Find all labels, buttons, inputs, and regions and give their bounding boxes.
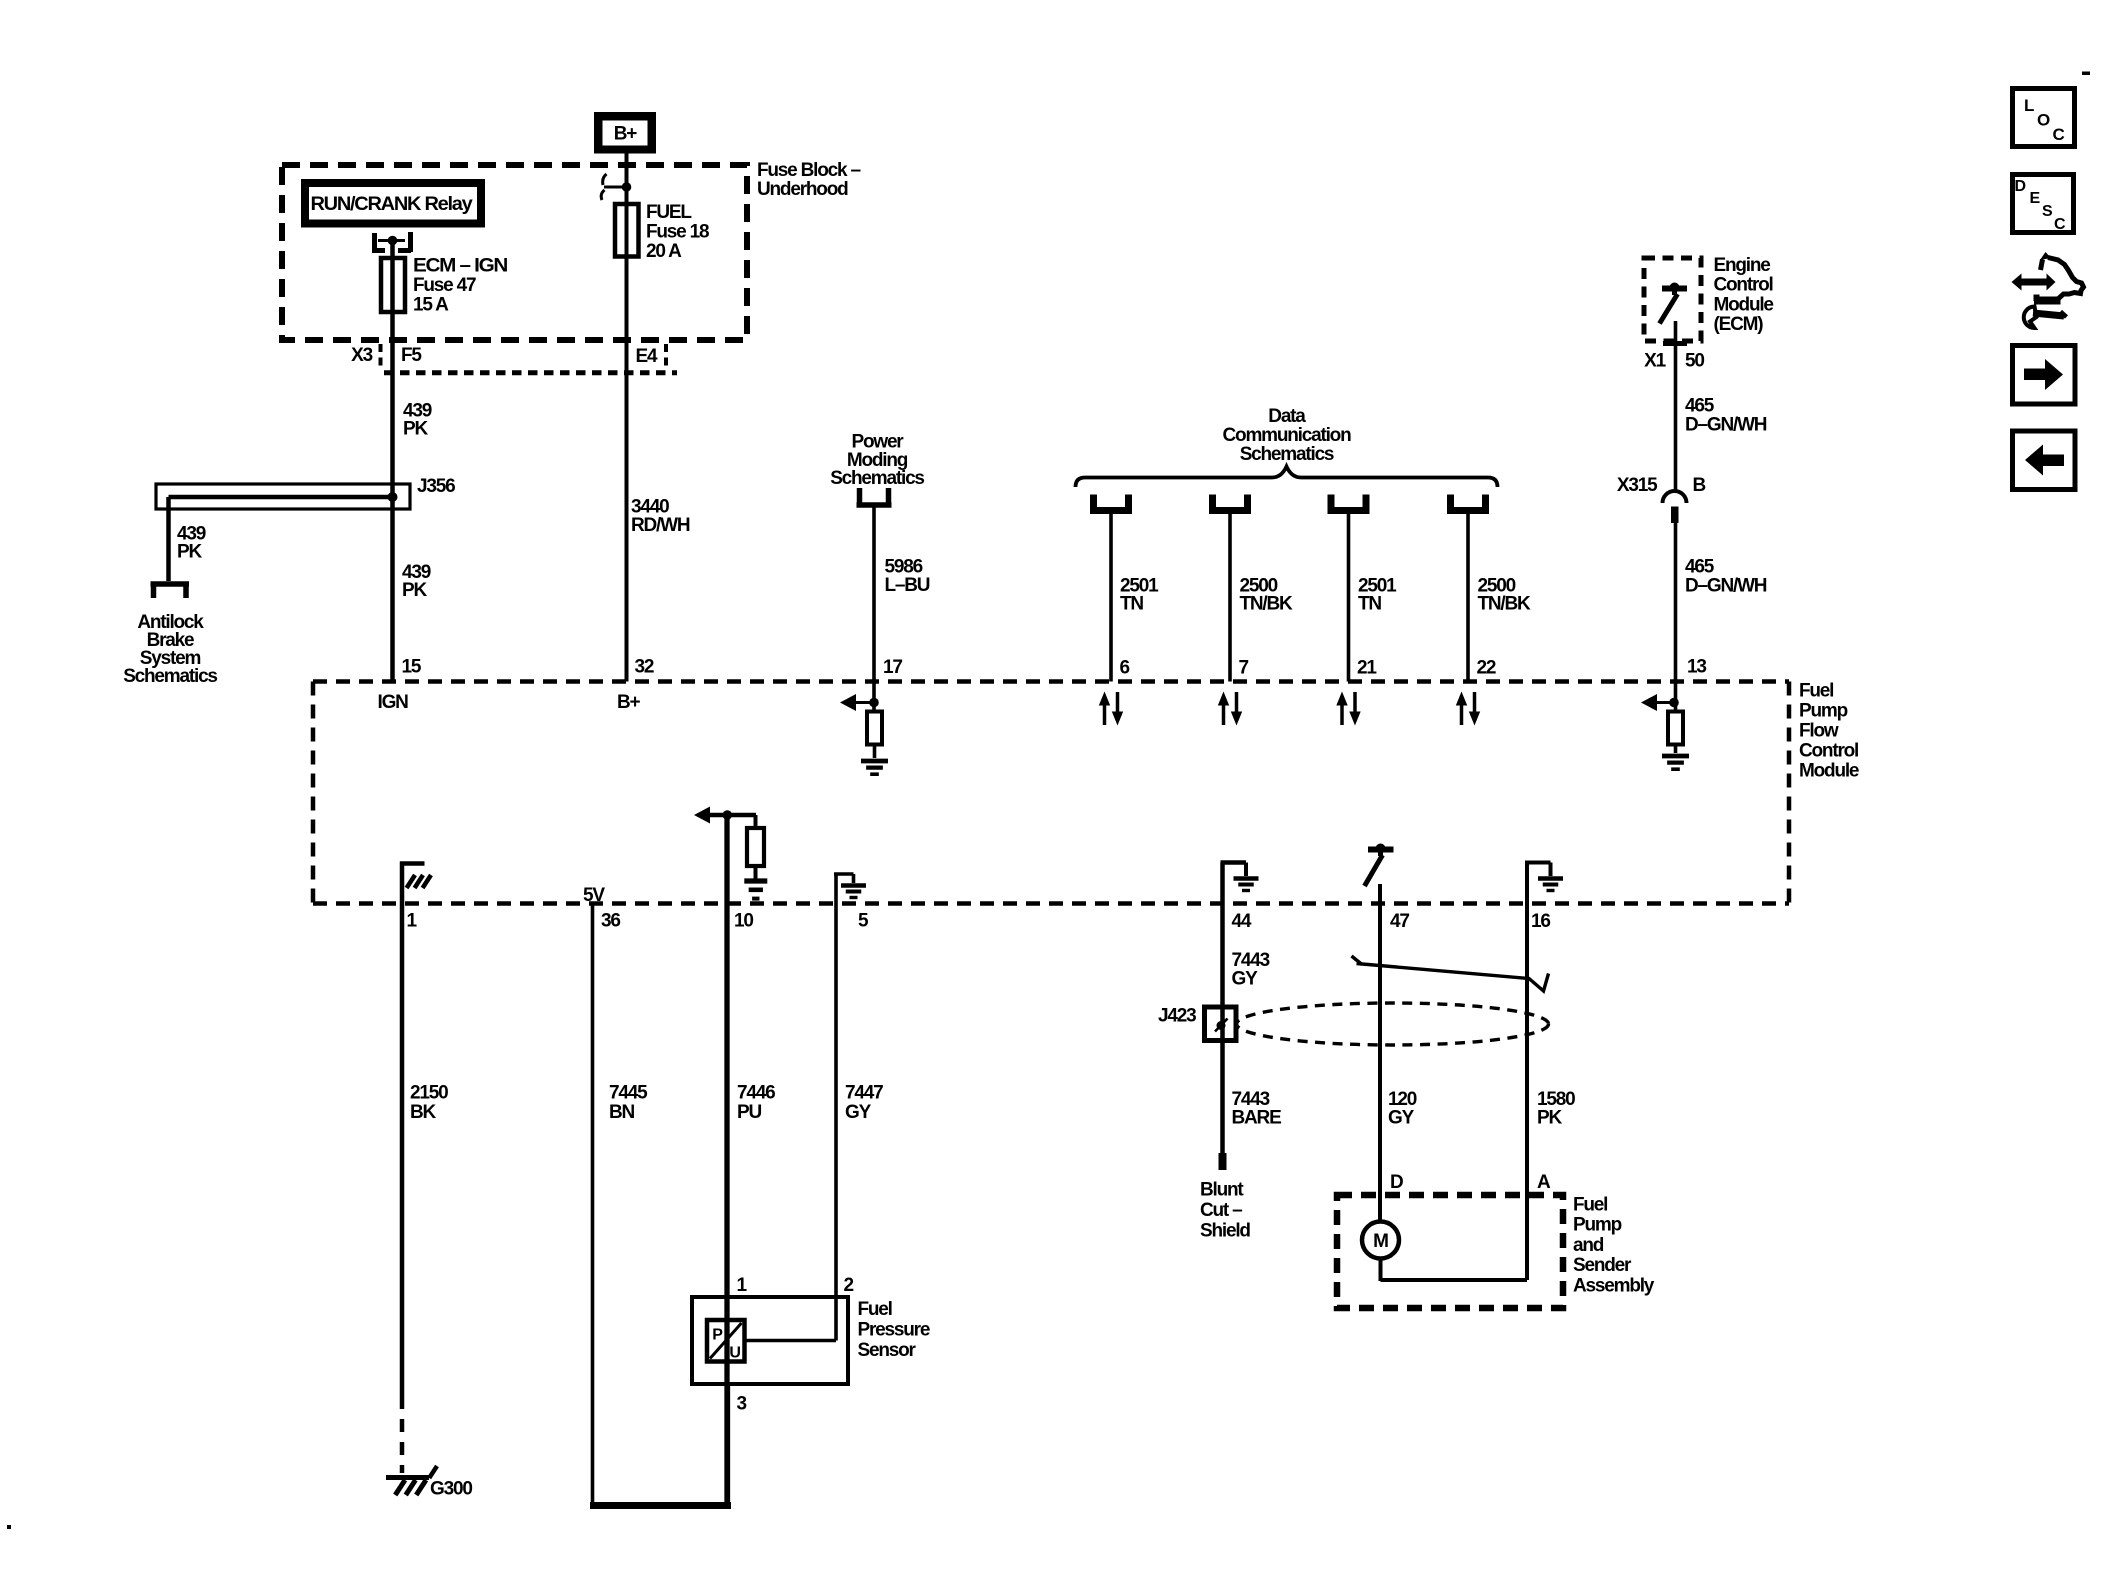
svg-text:C: C [2054, 216, 2066, 233]
svg-text:E4: E4 [636, 346, 658, 367]
svg-text:GY: GY [1388, 1108, 1415, 1129]
svg-text:Blunt: Blunt [1200, 1180, 1244, 1201]
svg-text:Communication: Communication [1223, 425, 1352, 446]
svg-text:Fuse 47: Fuse 47 [413, 275, 476, 296]
svg-text:BARE: BARE [1232, 1108, 1282, 1129]
svg-text:15 A: 15 A [413, 295, 449, 316]
svg-text:Module: Module [1714, 294, 1774, 315]
svg-text:D: D [2015, 178, 2026, 195]
svg-text:B+: B+ [617, 692, 641, 713]
svg-text:GY: GY [1232, 969, 1259, 990]
svg-text:RUN/CRANK Relay: RUN/CRANK Relay [311, 194, 474, 215]
svg-text:D–GN/WH: D–GN/WH [1685, 576, 1767, 597]
svg-text:50: 50 [1685, 351, 1704, 372]
svg-text:PK: PK [402, 580, 427, 601]
svg-text:Pressure: Pressure [858, 1320, 930, 1341]
svg-text:X1: X1 [1644, 351, 1666, 372]
svg-text:ECM – IGN: ECM – IGN [413, 256, 508, 277]
svg-text:G300: G300 [430, 1479, 472, 1500]
svg-text:C: C [2053, 125, 2065, 144]
svg-text:2: 2 [844, 1275, 854, 1296]
svg-text:36: 36 [601, 911, 620, 932]
svg-text:S: S [2042, 203, 2053, 220]
svg-text:3: 3 [737, 1394, 747, 1415]
svg-text:M: M [1373, 1231, 1388, 1252]
svg-text:X315: X315 [1617, 475, 1658, 496]
svg-text:PK: PK [403, 419, 428, 440]
svg-text:1: 1 [737, 1275, 748, 1296]
svg-text:Pump: Pump [1573, 1215, 1622, 1236]
svg-text:Sender: Sender [1573, 1255, 1632, 1276]
svg-text:47: 47 [1390, 911, 1409, 932]
svg-text:465: 465 [1685, 557, 1715, 578]
svg-text:Flow: Flow [1799, 721, 1839, 742]
svg-text:17: 17 [883, 657, 902, 678]
svg-text:PK: PK [1537, 1108, 1562, 1129]
svg-text:U: U [729, 1345, 740, 1362]
svg-text:J356: J356 [417, 476, 455, 497]
svg-text:Schematics: Schematics [830, 468, 924, 489]
svg-text:Shield: Shield [1200, 1221, 1250, 1242]
svg-text:Control: Control [1799, 741, 1858, 762]
svg-text:1: 1 [407, 911, 418, 932]
svg-text:10: 10 [734, 911, 753, 932]
svg-text:TN/BK: TN/BK [1240, 594, 1294, 615]
svg-text:BK: BK [410, 1102, 437, 1123]
svg-text:Fuel: Fuel [1573, 1195, 1607, 1216]
svg-text:Fuel: Fuel [1799, 681, 1833, 702]
svg-text:J423: J423 [1158, 1006, 1196, 1027]
svg-text:and: and [1573, 1235, 1604, 1256]
svg-text:21: 21 [1357, 658, 1377, 679]
svg-text:22: 22 [1477, 658, 1496, 679]
svg-text:7446: 7446 [737, 1083, 775, 1104]
svg-text:L: L [2024, 96, 2034, 115]
svg-text:Data: Data [1268, 406, 1306, 427]
svg-text:B+: B+ [614, 124, 638, 145]
svg-text:7445: 7445 [609, 1083, 648, 1104]
svg-text:5: 5 [858, 911, 869, 932]
svg-text:L–BU: L–BU [885, 575, 930, 596]
svg-text:RD/WH: RD/WH [631, 515, 690, 536]
svg-text:TN: TN [1358, 594, 1381, 615]
svg-text:465: 465 [1685, 396, 1715, 417]
svg-text:GY: GY [845, 1102, 872, 1123]
svg-text:Schematics: Schematics [1240, 444, 1334, 465]
svg-text:TN: TN [1120, 594, 1143, 615]
svg-text:X3: X3 [351, 345, 372, 366]
svg-text:Fuse 18: Fuse 18 [646, 222, 709, 243]
svg-text:16: 16 [1531, 911, 1550, 932]
svg-text:Engine: Engine [1714, 255, 1771, 276]
svg-text:E: E [2030, 190, 2041, 207]
svg-text:32: 32 [635, 657, 654, 678]
svg-text:D: D [1390, 1172, 1403, 1193]
svg-text:15: 15 [402, 657, 422, 678]
svg-text:Cut –: Cut – [1200, 1200, 1242, 1221]
svg-text:F5: F5 [401, 345, 422, 366]
svg-text:B: B [1693, 475, 1706, 496]
svg-text:20 A: 20 A [646, 241, 682, 262]
svg-text:PU: PU [737, 1102, 761, 1123]
svg-text:TN/BK: TN/BK [1478, 594, 1532, 615]
svg-text:7447: 7447 [845, 1083, 883, 1104]
svg-text:Fuse Block –: Fuse Block – [757, 160, 860, 181]
svg-text:6: 6 [1120, 658, 1130, 679]
svg-text:Schematics: Schematics [123, 666, 217, 687]
svg-text:2150: 2150 [410, 1083, 448, 1104]
svg-text:IGN: IGN [378, 692, 409, 713]
svg-text:5V: 5V [583, 885, 605, 906]
svg-text:Module: Module [1799, 761, 1859, 782]
svg-text:Control: Control [1714, 275, 1773, 296]
svg-text:44: 44 [1232, 911, 1252, 932]
svg-text:Fuel: Fuel [858, 1299, 892, 1320]
svg-text:BN: BN [609, 1102, 635, 1123]
svg-text:P: P [712, 1327, 723, 1344]
svg-text:7: 7 [1239, 658, 1249, 679]
svg-text:A: A [1537, 1172, 1551, 1193]
svg-text:Underhood: Underhood [757, 179, 848, 200]
svg-text:D–GN/WH: D–GN/WH [1685, 415, 1767, 436]
svg-text:Sensor: Sensor [858, 1340, 917, 1361]
svg-text:PK: PK [177, 542, 202, 563]
svg-text:13: 13 [1687, 657, 1706, 678]
svg-text:Pump: Pump [1799, 701, 1848, 722]
svg-text:(ECM): (ECM) [1714, 314, 1764, 335]
svg-text:Assembly: Assembly [1573, 1275, 1655, 1296]
svg-text:O: O [2037, 111, 2050, 130]
svg-text:FUEL: FUEL [646, 202, 692, 223]
